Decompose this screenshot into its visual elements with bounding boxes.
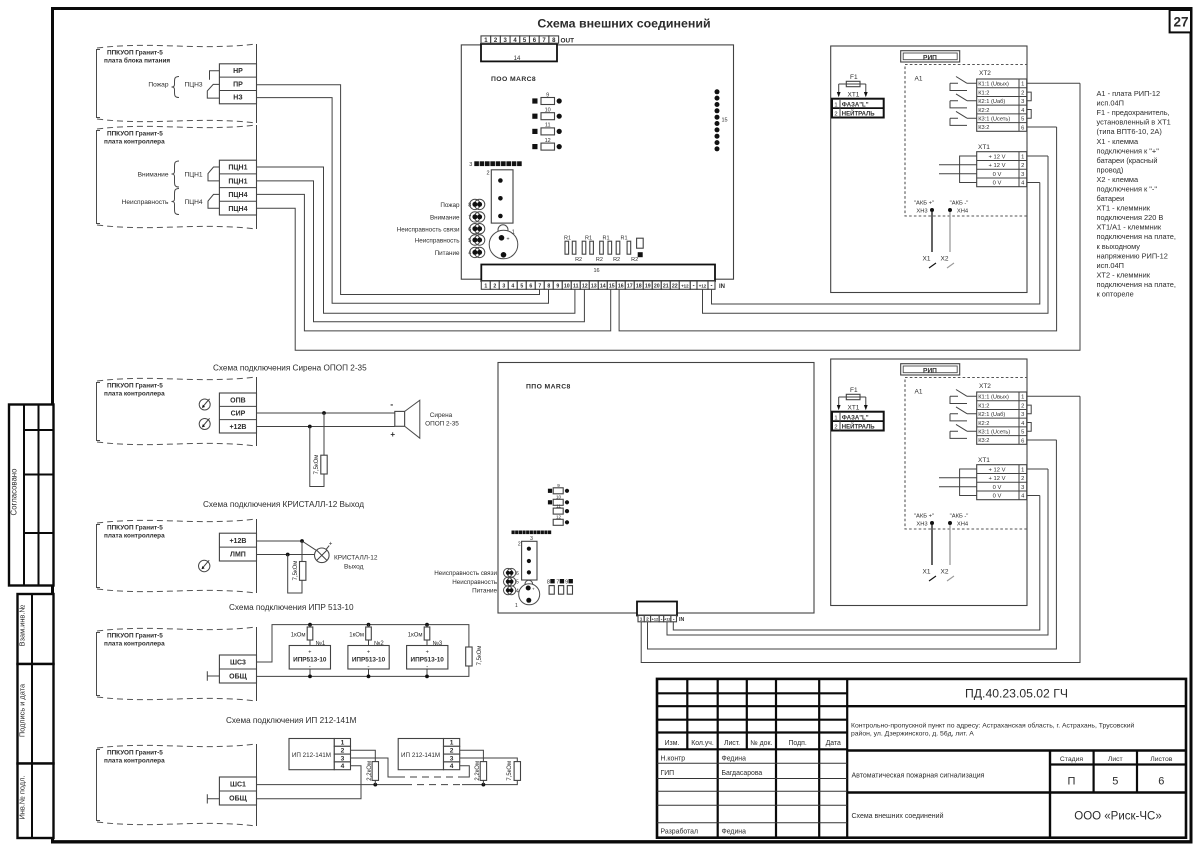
siren ОПОП 2-35 speaker bbox=[390, 400, 459, 439]
svg-text:9: 9 bbox=[565, 580, 568, 586]
svg-text:XT2: XT2 bbox=[979, 70, 991, 77]
resistor 7,5кОм (siren EOL) bbox=[310, 413, 327, 487]
connector 16 (IN header box) bbox=[481, 265, 715, 282]
svg-text:ШС3: ШС3 bbox=[230, 660, 246, 667]
svg-text:Схема внешних соединений: Схема внешних соединений bbox=[852, 812, 944, 820]
resistor 2,2кОм #2 bbox=[475, 761, 487, 787]
svg-text:20: 20 bbox=[654, 284, 660, 290]
wire detector2 pin3 to EOL resistor bbox=[460, 758, 518, 762]
svg-text:OUT: OUT bbox=[561, 37, 575, 44]
svg-text:установленный в XT1: установленный в XT1 bbox=[1097, 118, 1171, 127]
wire ОБЩ to detector1 pin4 bbox=[257, 766, 362, 799]
svg-text:К2:2: К2:2 bbox=[978, 108, 989, 114]
svg-text:1кОм: 1кОм bbox=[408, 633, 423, 639]
svg-text:1: 1 bbox=[341, 740, 345, 747]
svg-text:А1 - плата РИП-12: А1 - плата РИП-12 bbox=[1097, 89, 1161, 98]
svg-text:П: П bbox=[1068, 776, 1076, 788]
svg-text:Питание: Питание bbox=[472, 588, 497, 595]
svg-text:ПЦН1: ПЦН1 bbox=[185, 172, 203, 179]
svg-text:22: 22 bbox=[672, 284, 678, 290]
resistor 1кОм №3 bbox=[408, 623, 443, 647]
terminal block ПЦН1/ПЦН1/ПЦН4/ПЦН4 bbox=[219, 160, 256, 215]
relay contact hook at НР bbox=[210, 71, 220, 80]
svg-text:к выходному: к выходному bbox=[1097, 242, 1141, 251]
terminal block +12В/ЛМП bbox=[219, 533, 256, 561]
svg-text:ИП 212-141М: ИП 212-141М bbox=[401, 752, 440, 759]
pin header 3 on board 2 bbox=[512, 531, 552, 543]
svg-text:район, ул. Дзержинского, д. 56: район, ул. Дзержинского, д. 56д, лит. А bbox=[851, 730, 974, 738]
svg-text:3: 3 bbox=[450, 755, 454, 762]
svg-text:27: 27 bbox=[1173, 15, 1188, 30]
svg-text:К1:1 (Uвых): К1:1 (Uвых) bbox=[978, 82, 1009, 88]
svg-text:21: 21 bbox=[663, 284, 669, 290]
svg-text:+12В: +12В bbox=[229, 424, 246, 431]
resistor 2,2кОм #1 bbox=[367, 761, 379, 787]
svg-text:Внимание: Внимание bbox=[430, 215, 460, 222]
svg-text:ПД.40.23.05.02 ГЧ: ПД.40.23.05.02 ГЧ bbox=[965, 687, 1068, 701]
junction on +12В wire bbox=[300, 539, 304, 543]
svg-text:исп.04П: исп.04П bbox=[1097, 99, 1124, 108]
svg-text:подключения на плате,: подключения на плате, bbox=[1097, 232, 1176, 241]
svg-text:+: + bbox=[329, 541, 333, 548]
wire board2 minus to РИП2 XT1:4 bbox=[673, 496, 1040, 631]
svg-text:5: 5 bbox=[1021, 117, 1024, 123]
svg-text:1: 1 bbox=[484, 284, 487, 290]
svg-text:ШС1: ШС1 bbox=[230, 782, 246, 789]
svg-text:XT2 - клеммник: XT2 - клеммник bbox=[1097, 271, 1151, 280]
legend text column bbox=[1097, 89, 1176, 299]
svg-text:-: - bbox=[661, 617, 663, 623]
svg-text:1кОм: 1кОм bbox=[291, 633, 306, 639]
svg-text:7,5кОм: 7,5кОм bbox=[507, 761, 513, 781]
svg-text:ППО MARC8: ППО MARC8 bbox=[526, 384, 571, 391]
svg-text:6: 6 bbox=[529, 284, 532, 290]
terminal strip IN: cells 1-22,+12,-,+12,- bbox=[481, 281, 725, 290]
svg-text:+12: +12 bbox=[664, 618, 670, 622]
svg-text:(типа ВПТ6-10, 2А): (типа ВПТ6-10, 2А) bbox=[1097, 127, 1162, 136]
device board ППО MARC8 (lower) bbox=[498, 363, 814, 614]
svg-text:ОПОП 2-35: ОПОП 2-35 bbox=[425, 420, 459, 427]
svg-text:НР: НР bbox=[233, 68, 243, 75]
wire ПЦН1-b to strip cell 12 bbox=[257, 181, 585, 322]
LED 7 (Внимание) on board 1 bbox=[430, 212, 485, 222]
manual call point ИПР513-10 №2 bbox=[348, 646, 389, 679]
ground tick at ОБЩ (ИП) bbox=[207, 794, 219, 803]
svg-text:Дата: Дата bbox=[826, 740, 841, 747]
svg-text:Схема подключения КРИСТАЛЛ-12: Схема подключения КРИСТАЛЛ-12 Выход bbox=[203, 500, 364, 509]
svg-text:10: 10 bbox=[564, 284, 570, 290]
svg-text:провод): провод) bbox=[1097, 165, 1124, 174]
svg-text:5: 5 bbox=[1112, 776, 1118, 788]
svg-text:XT1 - клеммник: XT1 - клеммник bbox=[1097, 204, 1151, 213]
svg-text:3: 3 bbox=[1021, 99, 1024, 105]
svg-text:НЗ: НЗ bbox=[233, 95, 243, 102]
connector 14 (OUT header box) bbox=[481, 44, 557, 62]
svg-text:XT1/А1 - клеммник: XT1/А1 - клеммник bbox=[1097, 223, 1162, 232]
svg-text:ФАЗА"L": ФАЗА"L" bbox=[842, 102, 869, 108]
svg-text:2: 2 bbox=[518, 542, 521, 548]
LED 4 (Питание) on board 2 bbox=[472, 586, 519, 595]
terminal strip IN board 2: 1,2,+12,-,+12,- bbox=[638, 616, 684, 624]
junction on ЛМП wire bbox=[286, 553, 290, 557]
resistor 1кОм №2 bbox=[349, 623, 384, 647]
svg-text:13: 13 bbox=[591, 284, 597, 290]
optocoupler 10 on board 2 bbox=[548, 495, 569, 506]
svg-text:батареи (красный: батареи (красный bbox=[1097, 156, 1158, 165]
svg-text:4: 4 bbox=[511, 284, 514, 290]
svg-text:Неисправность: Неисправность bbox=[122, 199, 169, 206]
resistor 1кОм №1 bbox=[291, 623, 326, 647]
svg-text:"АКБ -": "АКБ -" bbox=[950, 201, 969, 207]
svg-text:плата контроллера: плата контроллера bbox=[104, 641, 165, 648]
svg-text:"АКБ +": "АКБ +" bbox=[914, 201, 934, 207]
LED 6 (Неисправность связи) on board 2 bbox=[434, 568, 519, 577]
connector 15 on board 1 bbox=[715, 89, 728, 151]
device board ПОО MARC8 (upper) bbox=[461, 45, 733, 279]
svg-text:+12: +12 bbox=[652, 618, 658, 622]
svg-text:Федина: Федина bbox=[722, 755, 747, 762]
svg-text:ООО «Риск-ЧС»: ООО «Риск-ЧС» bbox=[1074, 811, 1162, 823]
svg-text:Схема подключения ИП 212-141М: Схема подключения ИП 212-141М bbox=[226, 716, 357, 725]
svg-text:ПОО MARC8: ПОО MARC8 bbox=[491, 76, 536, 83]
svg-text:ОБЩ: ОБЩ bbox=[229, 674, 247, 681]
svg-text:14: 14 bbox=[600, 284, 606, 290]
svg-text:Сирена: Сирена bbox=[430, 412, 453, 419]
svg-text:R2: R2 bbox=[596, 257, 603, 263]
svg-text:ЛМП: ЛМП bbox=[230, 552, 246, 559]
svg-text:9: 9 bbox=[556, 284, 559, 290]
svg-text:3: 3 bbox=[341, 755, 345, 762]
svg-text:+: + bbox=[507, 236, 510, 242]
svg-text:Федина: Федина bbox=[722, 829, 747, 836]
svg-text:R2: R2 bbox=[575, 257, 582, 263]
svg-text:5: 5 bbox=[516, 580, 519, 586]
terminal block ШС1/ОБЩ bbox=[219, 777, 256, 805]
svg-text:Взам.инв.№: Взам.инв.№ bbox=[18, 605, 27, 647]
svg-text:3: 3 bbox=[1021, 172, 1024, 178]
svg-text:7: 7 bbox=[538, 284, 541, 290]
svg-text:4: 4 bbox=[450, 763, 454, 770]
ground tick at ОБЩ bbox=[207, 671, 219, 680]
svg-text:к оптореле: к оптореле bbox=[1097, 290, 1134, 299]
optocoupler 11 on board 2 bbox=[553, 504, 569, 515]
svg-text:ППКУОП Гранит-5: ППКУОП Гранит-5 bbox=[107, 525, 163, 532]
svg-text:15: 15 bbox=[609, 284, 615, 290]
LED 6 (Неисправность связи) on board 1 bbox=[397, 224, 485, 234]
optocoupler 12 on board 2 bbox=[553, 515, 569, 526]
svg-text:1: 1 bbox=[834, 102, 837, 108]
wire strip cell 16 to РИП1 XT2:6 bbox=[619, 127, 1057, 331]
svg-text:+ 12 V: + 12 V bbox=[989, 154, 1006, 160]
svg-text:плата контроллера: плата контроллера bbox=[104, 139, 165, 146]
svg-text:2,2кОм: 2,2кОм bbox=[475, 761, 481, 781]
svg-text:Питание: Питание bbox=[435, 250, 460, 257]
svg-text:Лист: Лист bbox=[1108, 756, 1123, 763]
svg-text:+: + bbox=[532, 587, 535, 592]
stamp block Подпись и дата bbox=[18, 664, 54, 764]
connector 2 on board 2 bbox=[518, 541, 537, 580]
svg-text:2: 2 bbox=[486, 171, 489, 177]
smoke detector ИП 212-141М #1 bbox=[289, 739, 351, 771]
svg-text:+: + bbox=[390, 430, 395, 439]
svg-text:Неисправность: Неисправность bbox=[415, 238, 460, 245]
svg-text:К1:2: К1:2 bbox=[978, 90, 989, 96]
label Внимание brace ПЦН1 bbox=[138, 161, 203, 187]
svg-text:Стадия: Стадия bbox=[1060, 756, 1083, 763]
LED 4 (Питание) on board 1 bbox=[435, 247, 485, 257]
svg-text:16: 16 bbox=[593, 268, 599, 274]
svg-text:Неисправность связи: Неисправность связи bbox=[397, 226, 460, 233]
svg-text:+: + bbox=[367, 650, 370, 656]
wire strip minus to РИП1 XT1:4 bbox=[712, 183, 1040, 305]
svg-text:7,5кОм: 7,5кОм bbox=[477, 646, 483, 666]
optocoupler 10 on board 1 bbox=[532, 108, 562, 120]
svg-text:F1: F1 bbox=[850, 74, 858, 81]
svg-text:СИР: СИР bbox=[231, 411, 246, 418]
component 7 on board 2 bbox=[556, 579, 564, 594]
svg-text:Лист.: Лист. bbox=[724, 740, 740, 747]
svg-text:6: 6 bbox=[1158, 776, 1164, 788]
svg-text:плата контроллера: плата контроллера bbox=[104, 391, 165, 398]
svg-text:ИП 212-141М: ИП 212-141М bbox=[292, 752, 331, 759]
stamp block Инв.№ подл. bbox=[18, 764, 54, 839]
svg-text:F1 - предохранитель,: F1 - предохранитель, bbox=[1097, 108, 1170, 117]
svg-text:-: - bbox=[390, 400, 393, 410]
svg-text:ППКУОП Гранит-5: ППКУОП Гранит-5 bbox=[107, 131, 163, 138]
svg-text:Багдасарова: Багдасарова bbox=[722, 770, 763, 777]
svg-text:R1: R1 bbox=[620, 236, 627, 242]
panel ППКУОП Гранит-5 controller board (ИПР loop) bbox=[97, 627, 257, 701]
wire НЗ to strip cell 8 bbox=[257, 98, 549, 304]
svg-text:12: 12 bbox=[582, 284, 588, 290]
РИП power supply unit 2 (copy) bbox=[831, 359, 1080, 606]
svg-text:Листов: Листов bbox=[1150, 756, 1172, 763]
svg-text:ИПР513-10: ИПР513-10 bbox=[352, 656, 386, 663]
svg-text:ПЦН3: ПЦН3 bbox=[185, 82, 203, 89]
svg-text:ХН4: ХН4 bbox=[957, 209, 969, 215]
panel ППКУОП Гранит-5 controller board (ИП loop) bbox=[97, 744, 257, 826]
relay contact blade ПР-НЗ bbox=[207, 84, 219, 98]
wire ПЦН4-a to strip cell 15 bbox=[257, 194, 611, 331]
svg-text:1: 1 bbox=[450, 740, 454, 747]
svg-text:2: 2 bbox=[834, 112, 837, 118]
component 8 on board 2 bbox=[547, 579, 555, 594]
smoke detector ИП 212-141М #2 bbox=[398, 739, 460, 771]
contact hook ПЦН1 pair bbox=[208, 167, 219, 181]
terminal block ОПВ/СИР/+12В bbox=[219, 393, 256, 433]
wire ШС1 bus bbox=[257, 780, 518, 784]
svg-text:1: 1 bbox=[1021, 82, 1024, 88]
svg-text:1кОм: 1кОм bbox=[349, 633, 364, 639]
svg-text:подключения 220 В: подключения 220 В bbox=[1097, 213, 1164, 222]
svg-text:ПЦН4: ПЦН4 bbox=[228, 206, 247, 213]
svg-text:К3:1 (Uсеть): К3:1 (Uсеть) bbox=[978, 116, 1010, 122]
wire ПЦН4-b to РИП1 XT2:1 bbox=[257, 83, 1081, 350]
EOL resistor 7,5кОм (ИПР loop) bbox=[466, 646, 483, 666]
junction on СИР wire bbox=[322, 411, 326, 415]
panel ППКУОП Гранит-5 power-supply board bbox=[97, 44, 257, 123]
svg-text:Внимание: Внимание bbox=[138, 172, 169, 179]
manual call point ИПР513-10 №3 bbox=[407, 646, 448, 679]
resistor 7,5кОм (lamp) bbox=[288, 541, 306, 593]
optocoupler 9 on board 2 bbox=[548, 483, 569, 494]
svg-text:15: 15 bbox=[722, 118, 728, 124]
svg-text:4: 4 bbox=[341, 763, 345, 770]
svg-text:+ 12 V: + 12 V bbox=[989, 163, 1006, 169]
resistor array R1/R2 on board 1 bbox=[564, 236, 638, 263]
component pad near R array bbox=[637, 238, 644, 257]
svg-text:подключения на плате,: подключения на плате, bbox=[1097, 280, 1176, 289]
svg-text:17: 17 bbox=[627, 284, 633, 290]
svg-text:Автоматическая пожарная сигнал: Автоматическая пожарная сигнализация bbox=[852, 772, 985, 779]
svg-text:XT1: XT1 bbox=[848, 92, 860, 99]
svg-text:R2: R2 bbox=[613, 257, 620, 263]
svg-text:Разработал: Разработал bbox=[661, 828, 699, 836]
svg-text:ОБЩ: ОБЩ bbox=[229, 796, 247, 803]
optocoupler 9 on board 1 bbox=[532, 92, 562, 104]
svg-text:-: - bbox=[711, 284, 713, 290]
LED 5 (Неисправность) on board 1 bbox=[415, 235, 485, 245]
panel ППКУОП Гранит-5 controller board (siren) bbox=[97, 377, 257, 446]
wire board2 cell2 to РИП2 XT2:6 bbox=[648, 440, 1057, 649]
wire detector1 pin2 to resistor bbox=[351, 750, 376, 761]
transistor symbol at ЛМП bbox=[199, 560, 210, 571]
svg-text:напряжению РИП-12: напряжению РИП-12 bbox=[1097, 251, 1168, 260]
terminal strip OUT, pins 1-8 bbox=[481, 36, 574, 44]
svg-text:ХН3: ХН3 bbox=[916, 209, 927, 215]
dashed break in ШС1 bus bbox=[405, 784, 462, 786]
svg-text:ИПР513-10: ИПР513-10 bbox=[411, 656, 445, 663]
РИП power supply unit 1 bbox=[831, 46, 1080, 293]
svg-text:7,5кОм: 7,5кОм bbox=[314, 455, 320, 475]
svg-text:Инв.№ подл.: Инв.№ подл. bbox=[18, 776, 27, 820]
label Пожар brace ПЦН3 bbox=[148, 77, 202, 98]
wire СИР to siren minus bbox=[257, 412, 395, 414]
svg-text:ПР: ПР bbox=[233, 81, 243, 88]
approval stamp block Согласовано bbox=[9, 405, 54, 586]
svg-text:ПЦН1: ПЦН1 bbox=[228, 178, 247, 185]
svg-text:ГИП: ГИП bbox=[661, 770, 675, 777]
svg-text:-: - bbox=[673, 617, 675, 623]
svg-text:Пожар: Пожар bbox=[148, 82, 168, 89]
pin header 3 on board 1 bbox=[469, 161, 521, 168]
transistor symbol at +12В bbox=[199, 418, 210, 429]
svg-text:Н.контр: Н.контр bbox=[661, 755, 686, 762]
LED 8 (Пожар) on board 1 bbox=[440, 199, 484, 209]
svg-text:подключения к "-": подключения к "-" bbox=[1097, 185, 1158, 194]
svg-text:Схема подключения Сирена ОПОП: Схема подключения Сирена ОПОП 2-35 bbox=[213, 363, 367, 372]
svg-text:IN: IN bbox=[719, 284, 725, 290]
svg-text:6: 6 bbox=[1021, 125, 1024, 131]
wire ПЦН1-a to strip cell 11 bbox=[257, 167, 575, 313]
wire +12В to lamp bbox=[257, 541, 317, 550]
wire +12В to siren plus bbox=[257, 426, 395, 428]
svg-text:Неисправность связи: Неисправность связи bbox=[434, 570, 497, 577]
lamp КРИСТАЛЛ-12 Выход bbox=[315, 541, 378, 571]
connector box IN on board 2 bbox=[637, 602, 677, 616]
svg-text:плата контроллера: плата контроллера bbox=[104, 758, 165, 765]
EOL resistor 7,5кОм (ИП loop) bbox=[507, 761, 520, 781]
svg-text:5: 5 bbox=[520, 284, 523, 290]
panel ППКУОП Гранит-5 controller board (ПЦН outputs) bbox=[97, 125, 257, 229]
svg-text:16: 16 bbox=[618, 284, 624, 290]
svg-text:А1: А1 bbox=[915, 76, 923, 83]
svg-text:+12: +12 bbox=[681, 284, 689, 289]
svg-text:18: 18 bbox=[636, 284, 642, 290]
wire board2 cell1 to РИП2 XT2:1 bbox=[641, 396, 1080, 662]
svg-text:8: 8 bbox=[547, 580, 550, 586]
svg-text:Схема подключения ИПР 513-10: Схема подключения ИПР 513-10 bbox=[229, 603, 354, 612]
terminal block ПЦН3 (НР/ПР/НЗ) bbox=[219, 64, 256, 104]
svg-text:+: + bbox=[426, 650, 429, 656]
svg-text:XT1: XT1 bbox=[978, 144, 990, 151]
svg-text:К2:1 (Uаб): К2:1 (Uаб) bbox=[978, 99, 1005, 105]
buzzer 1 on board 2 bbox=[515, 580, 540, 609]
svg-text:2,2кОм: 2,2кОм bbox=[367, 761, 373, 781]
svg-text:1: 1 bbox=[515, 603, 518, 609]
svg-text:0 V: 0 V bbox=[993, 181, 1002, 187]
manual call point ИПР513-10 №1 bbox=[289, 646, 330, 679]
svg-text:14: 14 bbox=[514, 56, 521, 62]
wire strip +12 to РИП1 XT1:1 bbox=[703, 156, 1049, 313]
svg-text:плата контроллера: плата контроллера bbox=[104, 533, 165, 540]
component 9 on board 2 bbox=[565, 579, 573, 594]
svg-text:Изм.: Изм. bbox=[665, 740, 680, 747]
optocoupler 12 on board 1 bbox=[532, 138, 562, 150]
wire board2 +12 to РИП2 XT1:1 bbox=[667, 469, 1048, 635]
svg-text:X2 - клемма: X2 - клемма bbox=[1097, 175, 1140, 184]
svg-text:6: 6 bbox=[516, 571, 519, 577]
svg-text:Кол.уч.: Кол.уч. bbox=[691, 740, 714, 747]
svg-text:3: 3 bbox=[469, 162, 472, 168]
svg-text:НЕЙТРАЛЬ: НЕЙТРАЛЬ bbox=[842, 110, 875, 118]
transistor symbol at ОПВ bbox=[199, 399, 210, 410]
svg-text:2: 2 bbox=[450, 748, 454, 755]
svg-text:1: 1 bbox=[640, 617, 643, 623]
svg-text:Подпись и дата: Подпись и дата bbox=[18, 683, 27, 737]
svg-text:X2: X2 bbox=[941, 256, 949, 263]
svg-text:ППКУОП Гранит-5: ППКУОП Гранит-5 bbox=[107, 50, 163, 57]
svg-text:8: 8 bbox=[547, 284, 550, 290]
svg-text:ПЦН4: ПЦН4 bbox=[185, 199, 203, 206]
svg-text:Подп.: Подп. bbox=[788, 740, 806, 747]
svg-text:0 V: 0 V bbox=[993, 172, 1002, 178]
svg-text:исп.04П: исп.04П bbox=[1097, 261, 1124, 270]
wire ЛМП to lamp bbox=[257, 554, 315, 556]
buzzer 1 on board 1 bbox=[489, 225, 518, 259]
svg-text:1: 1 bbox=[512, 229, 515, 235]
svg-text:Пожар: Пожар bbox=[440, 202, 460, 209]
svg-text:батареи: батареи bbox=[1097, 194, 1125, 203]
svg-text:Неисправность: Неисправность bbox=[452, 579, 497, 586]
svg-text:2: 2 bbox=[1021, 163, 1024, 169]
optocoupler 11 on board 1 bbox=[532, 123, 562, 135]
svg-text:2: 2 bbox=[341, 748, 345, 755]
svg-text:КРИСТАЛЛ-12: КРИСТАЛЛ-12 bbox=[334, 555, 378, 562]
sheet number box 27 bbox=[1170, 10, 1191, 32]
svg-text:ППКУОП Гранит-5: ППКУОП Гранит-5 bbox=[107, 750, 163, 757]
svg-text:2: 2 bbox=[493, 284, 496, 290]
terminal block ШС3/ОБЩ bbox=[219, 655, 256, 683]
svg-text:7,5кОм: 7,5кОм bbox=[293, 561, 299, 581]
svg-text:+12В: +12В bbox=[229, 538, 246, 545]
svg-text:ИПР513-10: ИПР513-10 bbox=[293, 656, 327, 663]
svg-text:1: 1 bbox=[1021, 154, 1024, 160]
connector 2 on board 1 bbox=[486, 170, 513, 223]
svg-text:2: 2 bbox=[646, 617, 649, 623]
svg-text:плата блока питания: плата блока питания bbox=[104, 57, 170, 65]
svg-text:+: + bbox=[308, 650, 311, 656]
